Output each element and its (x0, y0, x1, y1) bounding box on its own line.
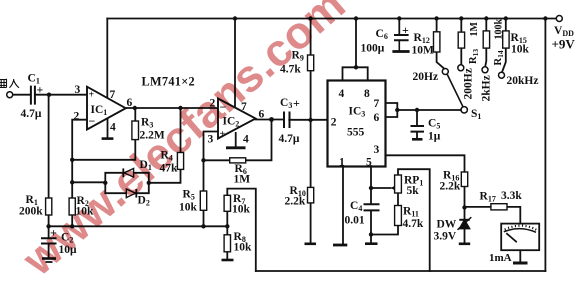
svg-text:4: 4 (110, 122, 116, 134)
meter M 1mA (501, 224, 539, 251)
capacitor C6 (394, 35, 409, 40)
svg-text:6: 6 (374, 112, 380, 124)
svg-text:R17: R17 (480, 191, 496, 204)
wire R10 column (310, 120, 312, 243)
wire R3 2.2M top lead (134, 108, 136, 121)
wire C3 to 555 pin2 (289, 119, 327, 121)
svg-text:1mA: 1mA (489, 252, 512, 264)
wire R13 lead (460, 19, 462, 65)
svg-text:100k: 100k (494, 19, 505, 40)
resistor R17 (491, 204, 507, 210)
svg-text:+: + (37, 83, 44, 97)
wire DW leads (464, 207, 466, 242)
wire R15 lead (502, 19, 506, 73)
svg-text:2: 2 (331, 117, 337, 129)
wire bottom VDD rail (256, 270, 546, 272)
input terminal (7, 92, 13, 98)
svg-text:1μ: 1μ (428, 131, 441, 143)
resistor R8 (224, 235, 230, 252)
wire R11 bottom to pin5 (371, 226, 398, 235)
resistor R11 (395, 206, 402, 226)
resistor R2 (69, 198, 75, 215)
ground IC1 pin4 (102, 137, 114, 140)
ground R10 (305, 243, 317, 246)
svg-text:+: + (402, 23, 409, 37)
wire IC1 pin2 stub (72, 120, 87, 198)
svg-text:20kHz: 20kHz (507, 75, 539, 87)
svg-text:3: 3 (374, 144, 380, 156)
svg-text:8: 8 (364, 88, 370, 100)
svg-text:5: 5 (366, 157, 372, 169)
wire IC2 pin3 stub (204, 132, 219, 192)
bias bus (49, 225, 228, 227)
svg-text:2.2k: 2.2k (440, 181, 461, 193)
svg-text:LM741×2: LM741×2 (142, 75, 196, 89)
zener diode DW (458, 217, 472, 230)
wire R7 bottom / R8 top (226, 211, 228, 235)
svg-text:−: − (89, 114, 96, 128)
capacitor C3 (284, 112, 290, 129)
wire IC1 pin4 to ground (107, 118, 109, 138)
op-amp IC2 (218, 99, 256, 139)
svg-text:0.01: 0.01 (345, 215, 365, 227)
svg-text:R14: R14 (493, 50, 505, 65)
svg-text:4: 4 (339, 88, 345, 100)
resistor R7 (224, 195, 230, 211)
wire input node down through R1 (48, 95, 50, 227)
svg-text:5k: 5k (407, 185, 420, 197)
resistor R4 (177, 153, 183, 170)
wire R4 bottom lead (149, 169, 181, 182)
svg-text:S1: S1 (471, 108, 481, 121)
watermark www.elecfans.com (15, 0, 353, 283)
wire R12 lead (437, 19, 444, 69)
svg-text:555: 555 (347, 127, 365, 139)
555 pins 7,6 bracket stubs already drawn; capacitor C5 (411, 126, 425, 132)
svg-text:+: + (89, 90, 95, 101)
svg-text:1M: 1M (234, 174, 251, 186)
capacitor C1 (31, 86, 35, 105)
svg-text:7: 7 (110, 89, 116, 101)
svg-text:10k: 10k (232, 204, 251, 216)
svg-text:200k: 200k (19, 206, 43, 218)
wire C1 to IC1 pin3 (35, 94, 87, 96)
svg-text:+: + (293, 96, 300, 110)
svg-text:10k: 10k (179, 202, 198, 214)
wire R2 bottom (71, 215, 73, 226)
diode D2 (126, 189, 136, 198)
wire R16 node to R17 (465, 206, 491, 208)
wire IC1 output to IC2 pin2 (126, 107, 218, 109)
svg-text:3: 3 (75, 84, 81, 96)
top VDD rail (107, 18, 556, 20)
capacitor C4 (364, 204, 380, 210)
wire 555 pin3 out (386, 155, 465, 172)
svg-text:200Hz: 200Hz (463, 68, 475, 99)
svg-text:10M: 10M (412, 45, 435, 57)
op-amp IC1 (87, 87, 126, 130)
resistor R15 (503, 31, 509, 48)
ground C2 (42, 259, 56, 263)
resistor R1 (46, 198, 52, 215)
wire R16 bottom (464, 187, 466, 208)
svg-text:DW: DW (437, 219, 457, 231)
ground 555 pin1 (333, 244, 347, 247)
resistor R9 (308, 55, 314, 71)
wire IC1 pin7 to rail (106, 19, 108, 98)
wire C2 (48, 226, 50, 257)
svg-text:R11: R11 (403, 206, 419, 219)
resistor R13 (458, 32, 464, 48)
wire 555 pin1 ground (342, 166, 344, 244)
ground meter (513, 262, 528, 265)
svg-text:2.2k: 2.2k (285, 196, 306, 208)
svg-text:C5: C5 (428, 118, 440, 131)
ground R8 (222, 259, 234, 262)
svg-text:10k: 10k (511, 44, 530, 56)
diode D1 (123, 168, 133, 177)
potentiometer RP1 (395, 175, 402, 193)
wire C5 leads (416, 110, 418, 138)
svg-text:4.7μ: 4.7μ (279, 133, 300, 145)
svg-text:100μ: 100μ (361, 43, 385, 55)
svg-text:C6: C6 (376, 28, 388, 41)
ground C6 (392, 50, 409, 53)
wire R6 left lead (204, 159, 230, 161)
ground C5 (412, 138, 423, 141)
switch S1 blade (447, 75, 463, 107)
wire input to C1 (13, 94, 30, 96)
wire RP1 to R11 (397, 193, 399, 206)
wire R9 column (310, 19, 312, 121)
wire RP1 top loop to bottom rail (398, 169, 430, 271)
svg-text:6: 6 (259, 109, 265, 121)
wire IC2 pin4 ground lead (235, 133, 237, 147)
svg-text:20Hz: 20Hz (413, 71, 439, 83)
svg-text:C4: C4 (350, 200, 362, 213)
svg-text:1: 1 (339, 157, 345, 169)
TEXT LABELS (0, 0, 1, 1)
svg-text:3.9V: 3.9V (434, 231, 457, 243)
svg-text:IC3: IC3 (349, 106, 366, 119)
wire R14 lead (485, 19, 486, 67)
resistor R3 (132, 121, 139, 140)
wire RP1 wiper (371, 187, 391, 189)
capacitor C2 (41, 238, 57, 243)
wire R5 bottom (203, 210, 205, 226)
ground 555 pin5 / C4 (365, 242, 378, 245)
svg-text:R12: R12 (414, 32, 430, 45)
svg-text:4.7k: 4.7k (403, 218, 424, 230)
switch S1 contacts (442, 65, 504, 113)
svg-text:+9V: +9V (552, 37, 576, 52)
wire R17 to meter (507, 207, 520, 223)
wire right edge VDD down (544, 19, 546, 272)
wire R3 bottom to pin2 node (72, 140, 135, 160)
wire IC2 output to C3 (256, 119, 284, 121)
ground DW (459, 243, 470, 246)
resistor R10 (308, 187, 314, 203)
wire to S1 common (397, 109, 461, 111)
wire IC2 pin7 to rail (234, 19, 236, 108)
wire R4 top lead (180, 108, 182, 153)
svg-text:R5: R5 (183, 189, 195, 202)
wire pin2 node to diode box (72, 181, 105, 183)
diode box loop D1 D2 (105, 173, 149, 193)
svg-text:6: 6 (127, 97, 133, 109)
wire C6 lead (398, 19, 400, 35)
resistor R5 (200, 191, 206, 210)
wire 555 pins 4,8 supply bracket (343, 19, 368, 81)
svg-text:2kHz: 2kHz (481, 75, 493, 101)
555 box (328, 81, 386, 167)
VDD terminal (556, 16, 562, 22)
svg-text:7: 7 (374, 98, 380, 110)
ground IC2 pin4 (226, 146, 246, 149)
resistor R16 (461, 172, 467, 187)
wire 555 pin7 pin6 bracket (386, 103, 398, 117)
svg-text:4: 4 (243, 134, 249, 146)
resistor R6 (230, 158, 246, 163)
wire R7 top to bottom rail (227, 189, 256, 271)
svg-text:3.3k: 3.3k (501, 190, 522, 202)
wire 555 pin5 column (370, 166, 372, 243)
svg-text:C3: C3 (280, 97, 292, 110)
resistor R14 (483, 31, 489, 48)
svg-text:4.7μ: 4.7μ (21, 108, 42, 120)
svg-text:2: 2 (74, 111, 80, 123)
svg-text:1M: 1M (469, 22, 480, 37)
svg-text:R13: R13 (468, 49, 480, 64)
wire R6 right lead up to output (246, 120, 272, 161)
svg-text:10k: 10k (234, 242, 253, 254)
wire R8 bottom (226, 252, 228, 260)
wire meter bottom (519, 250, 521, 262)
resistor R12 (434, 32, 440, 52)
